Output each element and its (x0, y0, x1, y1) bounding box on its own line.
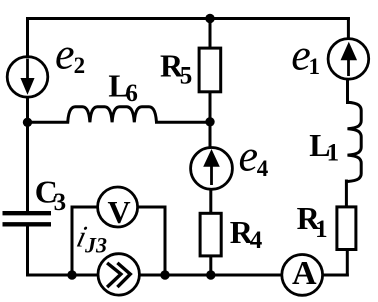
wire middle vertical (top node to R5) (209, 19, 212, 48)
current source J3 (circle with double chevron) (98, 254, 139, 295)
svg-text:4: 4 (257, 156, 269, 181)
wire V-meter loop top-right segment (138, 206, 166, 209)
label e1 (291, 30, 320, 79)
svg-text:e: e (55, 30, 75, 79)
wire V-meter loop right vertical (164, 207, 167, 275)
label L6 (108, 67, 137, 107)
wire left vertical (e2 to C3 top plate) (26, 98, 29, 212)
wire V-meter loop top-left segment (72, 206, 98, 209)
label R1 (297, 200, 328, 243)
wire bottom between J3 right node and R4 node (165, 274, 211, 277)
label e4 (239, 131, 269, 181)
svg-text:V: V (108, 194, 131, 230)
label C3 (35, 174, 66, 217)
inductor L1 (348, 102, 362, 181)
node left junction dot (e2/L6/C3) (23, 118, 32, 127)
label R4 (230, 214, 263, 254)
svg-text:2: 2 (74, 53, 86, 78)
ammeter A (282, 255, 323, 296)
node junction dot right of J3 loop (160, 270, 169, 279)
svg-text:1: 1 (309, 54, 321, 79)
svg-text:6: 6 (125, 80, 137, 107)
capacitor C3 (3, 213, 52, 224)
label e2 (55, 30, 85, 79)
wire right vertical lower (corner to R1) (346, 250, 349, 275)
wire middle vertical (R4 to bottom node) (209, 257, 212, 275)
resistor R5 (199, 48, 221, 92)
svg-text:3: 3 (54, 189, 67, 216)
svg-text:1: 1 (315, 216, 328, 243)
wire middle vertical (e4 to R4) (209, 190, 212, 213)
node bottom middle junction dot (R4 branch) (206, 270, 215, 279)
svg-text:4: 4 (250, 227, 263, 254)
wire left vertical upper (top corner to e2) (26, 19, 29, 57)
wire top horizontal (28, 17, 349, 20)
wire right vertical (R1 to L1) (345, 181, 348, 207)
svg-text:e: e (239, 131, 259, 180)
wire bottom horizontal (J3 to ammeter) (140, 274, 282, 277)
node top junction dot (205, 14, 214, 23)
label iJ3 (73, 220, 107, 257)
label L1 (309, 127, 339, 167)
wire right vertical (L1 to e1) (346, 80, 349, 103)
svg-text:1: 1 (327, 140, 340, 167)
wire V-meter loop left vertical (71, 207, 74, 275)
wire bottom horizontal left (corner to J3 circle) (28, 274, 99, 277)
source e1 (circle with up arrow) (328, 39, 369, 80)
node junction dot left of J3 loop (67, 270, 76, 279)
wire left vertical lower (C3 bottom plate to bottom corner) (26, 226, 29, 275)
svg-text:A: A (292, 255, 317, 292)
wire L6 branch right stub (157, 121, 211, 124)
resistor R1 (337, 207, 356, 250)
node B junction dot (L6/R5/e4) (205, 117, 214, 126)
wire right vertical upper (e1 to top corner) (347, 19, 350, 39)
svg-text:5: 5 (180, 62, 193, 89)
label R5 (160, 47, 192, 89)
wire bottom horizontal right (ammeter to right corner) (323, 274, 348, 277)
inductor L6 (68, 107, 157, 123)
wire L6 branch left stub (28, 121, 68, 124)
resistor R4 (200, 213, 221, 256)
svg-text:J3: J3 (84, 232, 107, 257)
wire middle vertical (R5 to node B) (209, 93, 212, 147)
source e4 (circle with up arrow) (191, 148, 233, 190)
source e2 (circle with down arrow) (7, 57, 48, 98)
voltmeter V (98, 187, 138, 230)
